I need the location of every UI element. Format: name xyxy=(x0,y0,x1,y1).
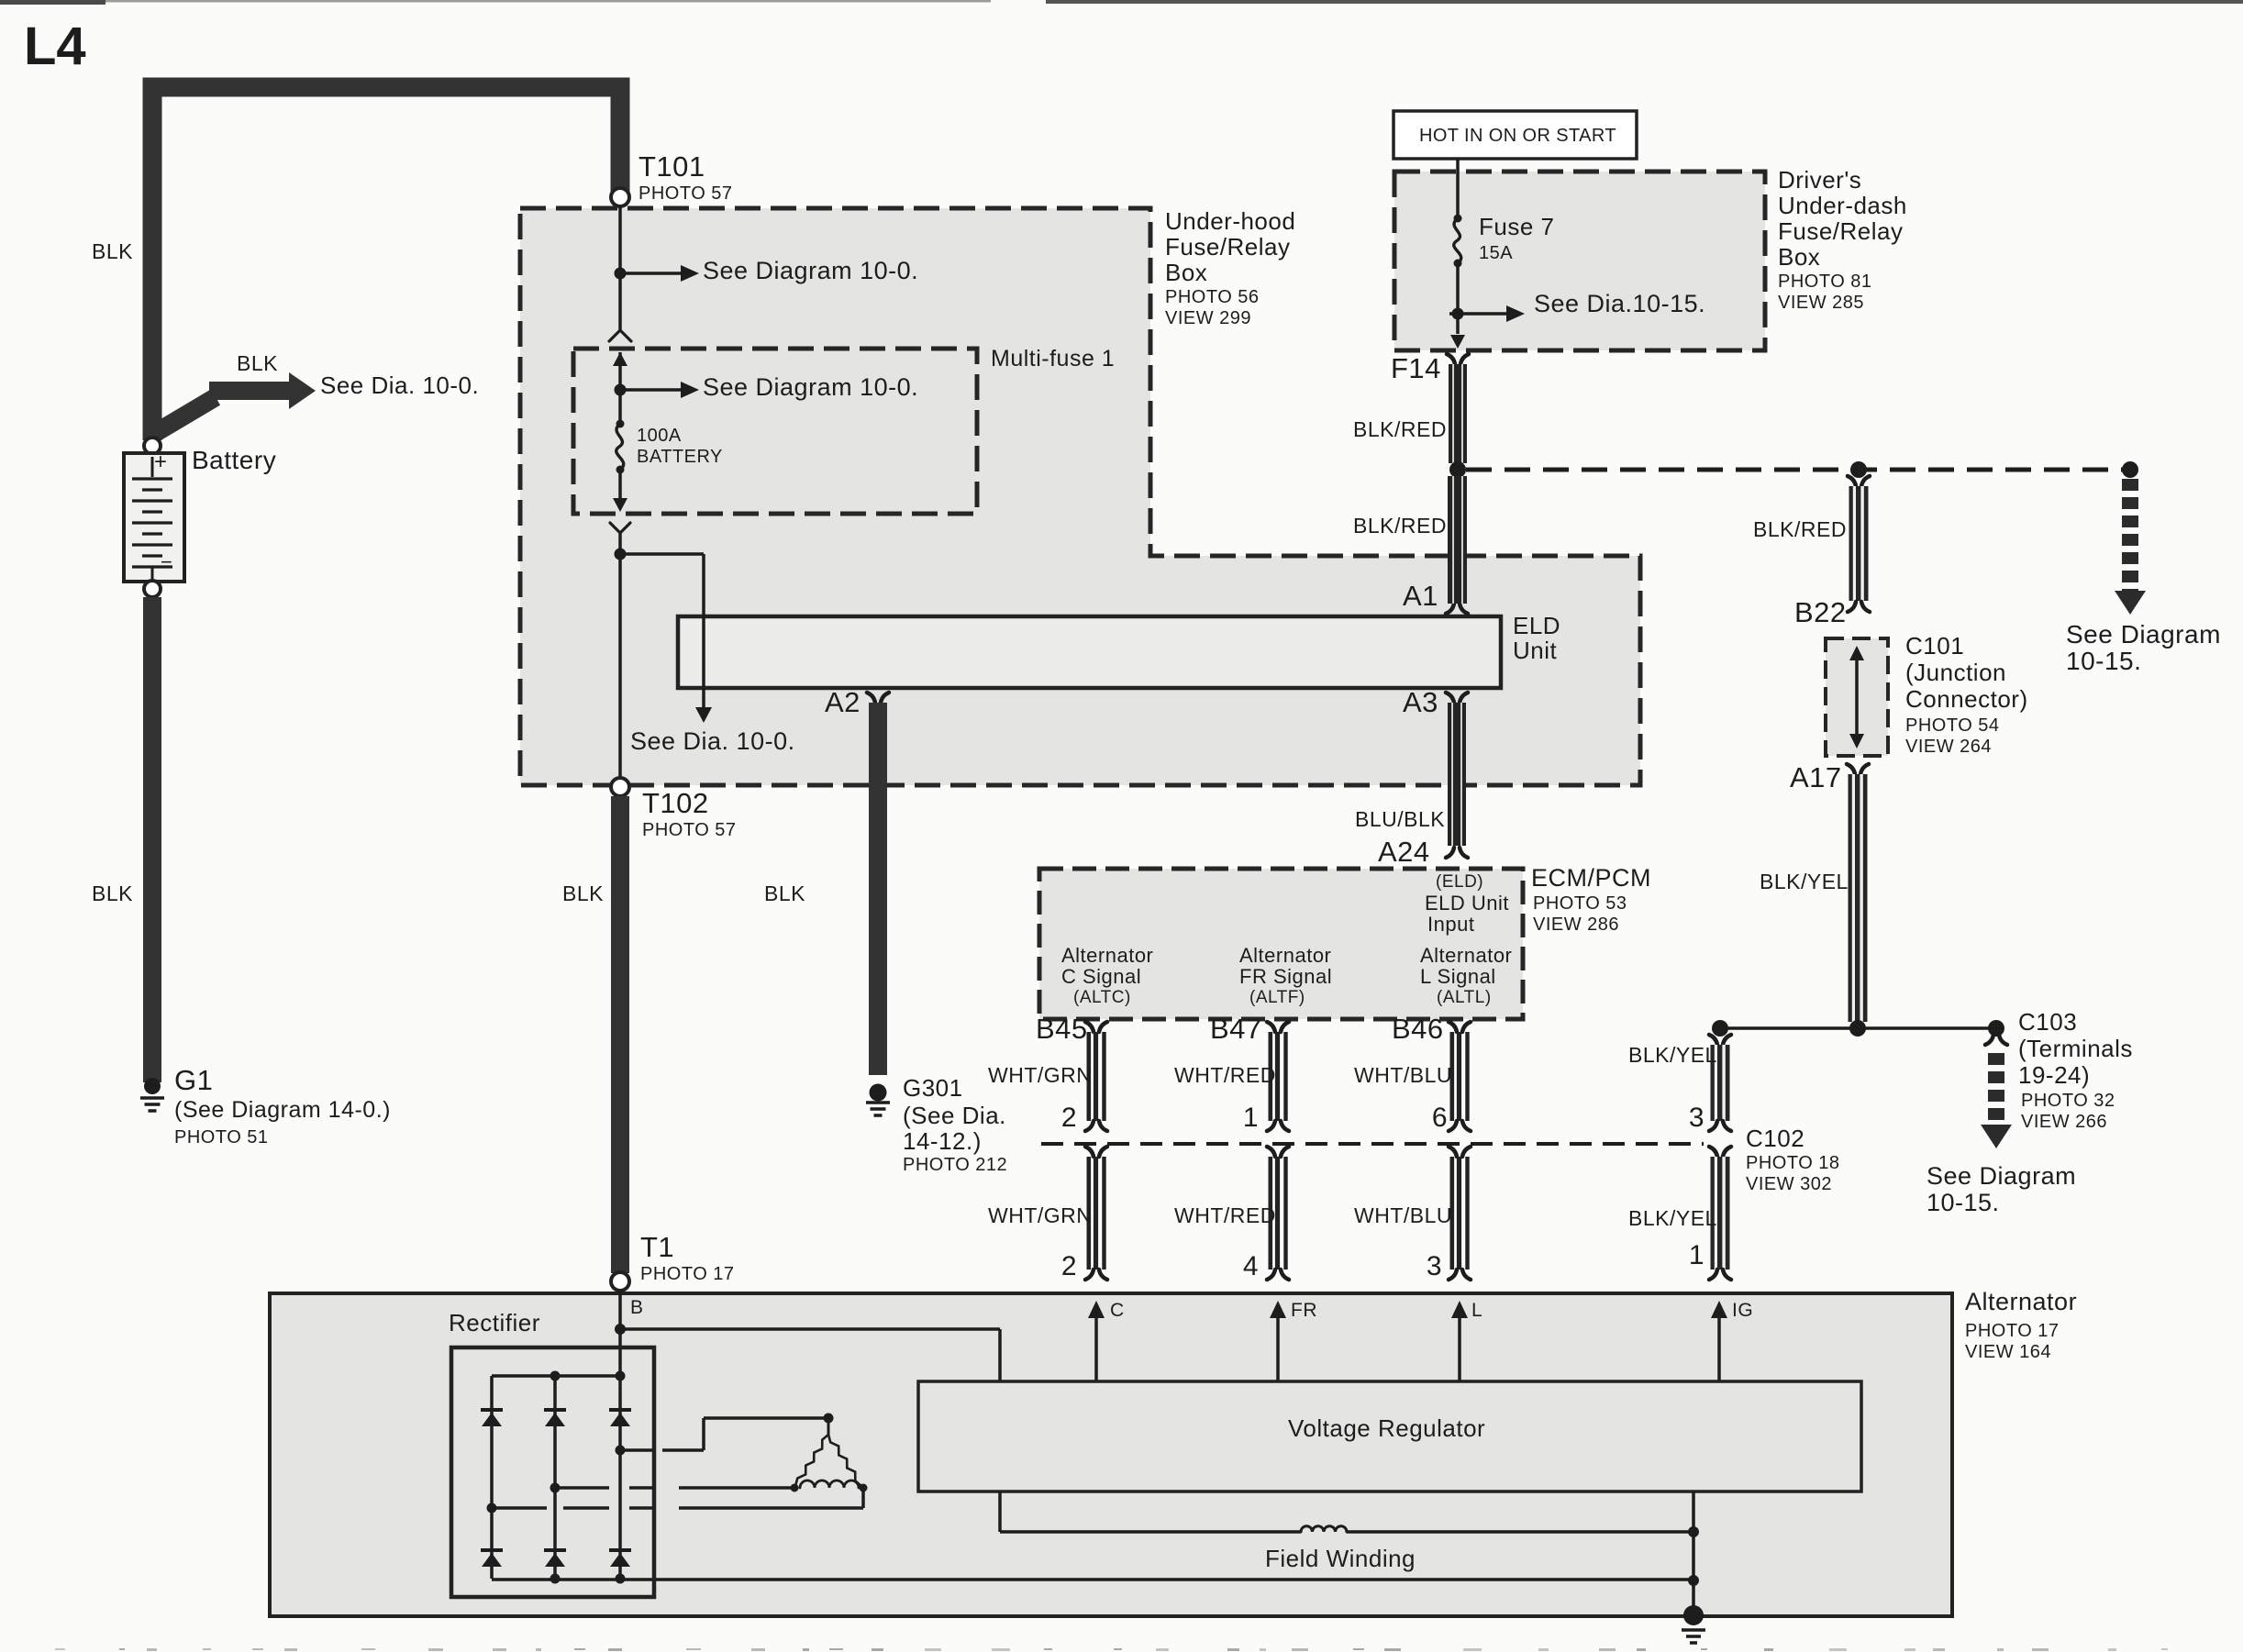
svg-text:G1: G1 xyxy=(174,1064,213,1096)
svg-text:Alternator: Alternator xyxy=(1965,1288,2077,1315)
svg-text:Driver's: Driver's xyxy=(1778,166,1861,194)
svg-text:C101: C101 xyxy=(1905,632,1964,660)
svg-text:PHOTO 17: PHOTO 17 xyxy=(640,1264,735,1284)
svg-text:BLK: BLK xyxy=(92,881,133,905)
svg-text:BLK/RED: BLK/RED xyxy=(1353,514,1447,538)
svg-text:PHOTO 57: PHOTO 57 xyxy=(642,820,737,840)
svg-text:WHT/BLU: WHT/BLU xyxy=(1354,1063,1452,1087)
svg-text:WHT/RED: WHT/RED xyxy=(1174,1203,1276,1227)
svg-text:+: + xyxy=(154,449,167,474)
svg-text:Alternator: Alternator xyxy=(1420,944,1512,967)
svg-text:BLK/YEL: BLK/YEL xyxy=(1628,1206,1717,1230)
svg-text:G301: G301 xyxy=(903,1074,963,1102)
svg-text:See Diagram 10-0.: See Diagram 10-0. xyxy=(703,257,918,284)
svg-text:See Diagram: See Diagram xyxy=(1927,1162,2076,1190)
svg-text:See Diagram 10-0.: See Diagram 10-0. xyxy=(703,373,918,401)
svg-text:WHT/RED: WHT/RED xyxy=(1174,1063,1276,1087)
svg-text:VIEW 264: VIEW 264 xyxy=(1905,737,1992,757)
svg-text:Fuse/Relay: Fuse/Relay xyxy=(1165,233,1291,261)
svg-text:(ALTC): (ALTC) xyxy=(1073,988,1131,1007)
svg-text:Unit: Unit xyxy=(1513,637,1558,664)
svg-text:FR Signal: FR Signal xyxy=(1239,965,1332,988)
svg-text:PHOTO 57: PHOTO 57 xyxy=(638,183,733,204)
svg-text:A17: A17 xyxy=(1790,761,1842,793)
svg-text:A2: A2 xyxy=(825,686,861,718)
svg-text:T102: T102 xyxy=(642,787,709,819)
svg-text:100A: 100A xyxy=(637,426,682,446)
svg-text:3: 3 xyxy=(1427,1251,1442,1281)
svg-text:B45: B45 xyxy=(1036,1013,1088,1045)
svg-text:IG: IG xyxy=(1732,1300,1753,1321)
svg-text:See Dia.10-15.: See Dia.10-15. xyxy=(1534,290,1705,317)
svg-text:F14: F14 xyxy=(1391,352,1441,384)
svg-text:Multi-fuse 1: Multi-fuse 1 xyxy=(991,346,1115,371)
svg-text:PHOTO 56: PHOTO 56 xyxy=(1165,287,1260,307)
svg-text:C102: C102 xyxy=(1746,1125,1804,1152)
svg-text:(ELD): (ELD) xyxy=(1436,872,1483,892)
svg-text:See Diagram: See Diagram xyxy=(2066,620,2221,649)
svg-text:VIEW 302: VIEW 302 xyxy=(1746,1174,1832,1194)
svg-text:1: 1 xyxy=(1243,1103,1259,1133)
svg-text:1: 1 xyxy=(1689,1240,1704,1270)
svg-text:PHOTO 17: PHOTO 17 xyxy=(1965,1321,2060,1341)
svg-text:C103: C103 xyxy=(2018,1008,2077,1036)
svg-text:Under-dash: Under-dash xyxy=(1778,192,1907,219)
svg-text:L Signal: L Signal xyxy=(1420,965,1496,988)
svg-text:ELD: ELD xyxy=(1513,612,1560,639)
svg-text:PHOTO 212: PHOTO 212 xyxy=(903,1155,1007,1175)
svg-text:10-15.: 10-15. xyxy=(1927,1189,2000,1216)
svg-text:2: 2 xyxy=(1061,1251,1077,1281)
svg-text:A1: A1 xyxy=(1403,580,1438,612)
svg-text:Alternator: Alternator xyxy=(1239,944,1331,967)
svg-text:See Dia. 10-0.: See Dia. 10-0. xyxy=(630,727,795,755)
svg-text:BLK: BLK xyxy=(764,881,805,905)
svg-text:VIEW 286: VIEW 286 xyxy=(1533,915,1619,935)
svg-text:Box: Box xyxy=(1165,259,1207,286)
svg-text:BLK: BLK xyxy=(562,881,604,905)
svg-text:PHOTO 32: PHOTO 32 xyxy=(2021,1091,2115,1111)
svg-text:10-15.: 10-15. xyxy=(2066,647,2141,675)
svg-text:ELD Unit: ELD Unit xyxy=(1425,892,1509,915)
svg-text:(Junction: (Junction xyxy=(1905,659,2006,686)
svg-text:C: C xyxy=(1110,1300,1125,1321)
svg-text:PHOTO 18: PHOTO 18 xyxy=(1746,1153,1840,1173)
svg-text:B47: B47 xyxy=(1210,1013,1262,1045)
svg-text:Box: Box xyxy=(1778,243,1820,271)
svg-text:WHT/BLU: WHT/BLU xyxy=(1354,1203,1452,1227)
svg-text:VIEW 266: VIEW 266 xyxy=(2021,1112,2107,1132)
svg-text:ECM/PCM: ECM/PCM xyxy=(1531,864,1651,892)
svg-text:(ALTL): (ALTL) xyxy=(1437,988,1492,1007)
svg-text:3: 3 xyxy=(1689,1103,1704,1133)
svg-text:L4: L4 xyxy=(24,17,86,76)
svg-text:HOT IN ON OR START: HOT IN ON OR START xyxy=(1419,126,1616,146)
svg-text:(ALTF): (ALTF) xyxy=(1249,988,1305,1007)
svg-text:B: B xyxy=(630,1297,644,1318)
svg-text:B22: B22 xyxy=(1794,596,1847,628)
svg-text:T101: T101 xyxy=(638,150,705,183)
svg-text:2: 2 xyxy=(1061,1103,1077,1133)
svg-text:WHT/GRN: WHT/GRN xyxy=(988,1063,1092,1087)
svg-text:Battery: Battery xyxy=(192,446,276,474)
svg-text:PHOTO 51: PHOTO 51 xyxy=(174,1127,269,1148)
svg-text:6: 6 xyxy=(1432,1103,1448,1133)
svg-text:BLU/BLK: BLU/BLK xyxy=(1355,807,1445,831)
svg-text:(See Dia.: (See Dia. xyxy=(903,1102,1006,1129)
svg-text:Alternator: Alternator xyxy=(1061,944,1153,967)
svg-text:PHOTO 81: PHOTO 81 xyxy=(1778,272,1872,292)
svg-text:Voltage Regulator: Voltage Regulator xyxy=(1288,1414,1485,1442)
svg-text:14-12.): 14-12.) xyxy=(903,1127,982,1155)
svg-text:T1: T1 xyxy=(640,1231,674,1263)
svg-text:BLK: BLK xyxy=(92,239,133,263)
svg-text:Under-hood: Under-hood xyxy=(1165,207,1295,235)
svg-text:19-24): 19-24) xyxy=(2018,1061,2090,1089)
svg-text:BLK: BLK xyxy=(237,351,278,375)
svg-text:A24: A24 xyxy=(1378,836,1430,868)
svg-text:B46: B46 xyxy=(1392,1013,1444,1045)
svg-text:VIEW 285: VIEW 285 xyxy=(1778,293,1864,313)
svg-text:A3: A3 xyxy=(1403,686,1438,718)
svg-text:15A: 15A xyxy=(1479,243,1513,263)
svg-text:(Terminals: (Terminals xyxy=(2018,1035,2133,1062)
svg-text:L: L xyxy=(1471,1300,1482,1321)
svg-text:Fuse 7: Fuse 7 xyxy=(1479,213,1555,240)
svg-text:PHOTO 53: PHOTO 53 xyxy=(1533,893,1627,914)
svg-text:(See Diagram 14-0.): (See Diagram 14-0.) xyxy=(174,1097,391,1123)
svg-text:WHT/GRN: WHT/GRN xyxy=(988,1203,1092,1227)
svg-text:−: − xyxy=(161,550,172,573)
svg-text:FR: FR xyxy=(1291,1300,1317,1321)
svg-text:BLK/RED: BLK/RED xyxy=(1353,417,1447,441)
svg-text:4: 4 xyxy=(1243,1251,1259,1281)
svg-text:BLK/RED: BLK/RED xyxy=(1753,517,1847,541)
svg-text:BLK/YEL: BLK/YEL xyxy=(1628,1043,1717,1067)
svg-text:See Dia. 10-0.: See Dia. 10-0. xyxy=(320,371,479,399)
svg-text:C Signal: C Signal xyxy=(1061,965,1141,988)
svg-text:BLK/YEL: BLK/YEL xyxy=(1760,870,1849,893)
svg-text:VIEW 299: VIEW 299 xyxy=(1165,308,1251,328)
svg-text:Input: Input xyxy=(1427,913,1474,936)
svg-text:PHOTO 54: PHOTO 54 xyxy=(1905,715,2000,736)
svg-text:Connector): Connector) xyxy=(1905,685,2028,713)
svg-text:Rectifier: Rectifier xyxy=(449,1309,540,1336)
svg-text:BATTERY: BATTERY xyxy=(637,447,723,467)
svg-text:Field Winding: Field Winding xyxy=(1265,1545,1416,1572)
svg-text:VIEW 164: VIEW 164 xyxy=(1965,1342,2051,1362)
svg-text:Fuse/Relay: Fuse/Relay xyxy=(1778,217,1904,245)
